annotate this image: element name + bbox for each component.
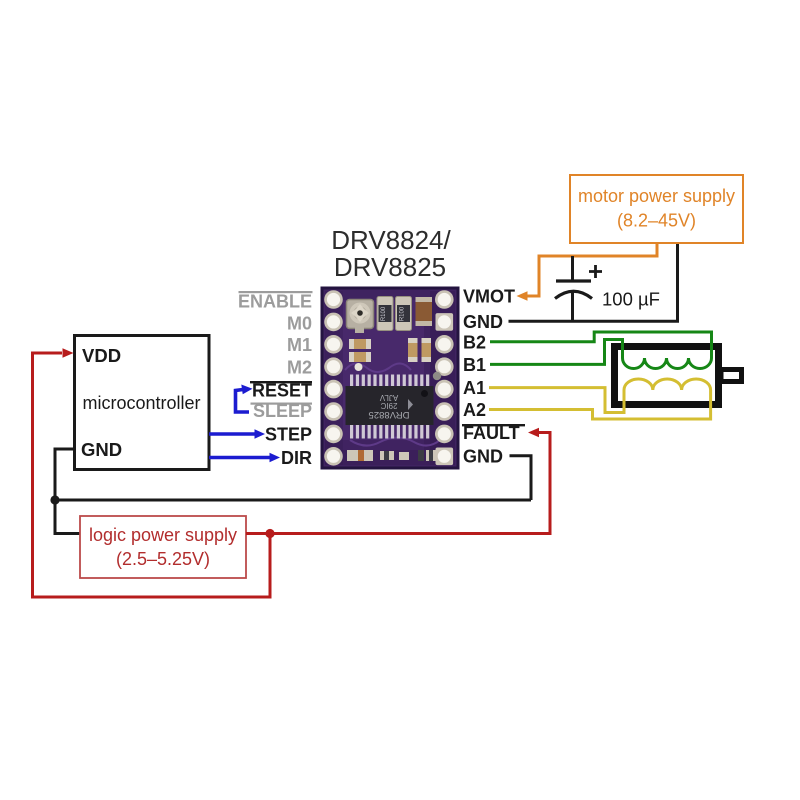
microcontroller block [75, 336, 210, 470]
arrow into STEP [255, 429, 266, 439]
logic power supply box [80, 516, 246, 578]
svg-text:logic power supply: logic power supply [89, 525, 237, 545]
wire GND: microcontroller to junction and logic supply [55, 449, 80, 534]
left pad column [324, 290, 343, 465]
coil A (yellow, bumps up) [624, 379, 711, 390]
svg-text:ENABLE: ENABLE [238, 292, 312, 312]
wire DIR (blue) [209, 456, 270, 459]
small SMD component right a [408, 338, 418, 362]
wire VDD supply loop (red) [33, 353, 271, 597]
arrow into FAULT [528, 428, 539, 438]
capacitor C1 100uF [555, 256, 660, 321]
svg-text:GND: GND [463, 312, 503, 332]
wire GND bus (horizontal) [55, 499, 531, 502]
svg-text:DRV8825: DRV8825 [334, 252, 446, 282]
arrow into DIR [270, 453, 281, 463]
title DRV8824/DRV8825 [331, 225, 451, 282]
svg-text:A2: A2 [463, 400, 486, 420]
wire RESET-SLEEP bracket (blue) [236, 390, 250, 413]
arrow into RESET [241, 385, 252, 395]
negative curved plate [555, 291, 592, 298]
negative lead [571, 292, 574, 321]
motor power supply box [570, 175, 743, 243]
svg-text:B1: B1 [463, 355, 486, 375]
svg-text:GND: GND [81, 439, 122, 460]
svg-text:VMOT: VMOT [463, 287, 515, 307]
svg-text:R100: R100 [400, 306, 406, 321]
coil B (green, bumps down) [623, 358, 712, 369]
svg-text:DIR: DIR [281, 448, 312, 468]
right side pin labels [462, 287, 525, 467]
svg-text:M1: M1 [287, 335, 312, 355]
stepper motor body [615, 347, 742, 405]
positive plate [556, 279, 591, 282]
SMD component (sense resistor 1) [377, 297, 393, 331]
wire A1 (yellow) under bottom wall to coil left end [489, 388, 624, 413]
wire GND: board bottom GND to bus [510, 456, 532, 500]
svg-text:STEP: STEP [265, 425, 312, 445]
svg-text:100 µF: 100 µF [602, 289, 660, 310]
arrow into VDD [63, 348, 74, 358]
svg-text:(8.2–45V): (8.2–45V) [617, 211, 696, 231]
pin label ENABLE (with overline) [238, 291, 313, 421]
SMD component (sense resistor 2) [396, 297, 412, 331]
SMD capacitor (brown) [416, 297, 433, 326]
motor shaft [721, 370, 742, 382]
small SMD resistor left b [349, 352, 371, 362]
svg-text:GND: GND [463, 447, 503, 467]
wire VMOT (orange) from motor supply [526, 243, 657, 296]
small SMD component right b [422, 338, 432, 362]
wire STEP (blue) [209, 432, 255, 435]
via (gray dot) [433, 372, 441, 380]
svg-text:VDD: VDD [82, 345, 121, 366]
wire GND: board top GND to motor supply [509, 243, 678, 321]
positive lead [571, 256, 574, 281]
IC pins bottom row [350, 425, 429, 439]
svg-text:A1: A1 [463, 378, 486, 398]
svg-text:M2: M2 [287, 358, 312, 378]
svg-text:M0: M0 [287, 314, 312, 334]
junction VDD net [265, 529, 274, 538]
svg-text:RESET: RESET [252, 381, 312, 401]
svg-text:microcontroller: microcontroller [82, 393, 200, 413]
right pad column [435, 290, 454, 465]
junction GND node [50, 495, 59, 504]
driver board U1 (DRV8825 carrier PCB photo) [322, 288, 458, 468]
arrow into VMOT [517, 291, 528, 301]
svg-text:motor power supply: motor power supply [578, 186, 735, 206]
IC pins top row [350, 375, 429, 388]
svg-text:B2: B2 [463, 333, 486, 353]
wire B2 (green) over motor top to coil right end [490, 332, 712, 358]
wire FAULT (red) [246, 433, 550, 534]
svg-text:(2.5–5.25V): (2.5–5.25V) [116, 549, 210, 569]
via (white dot) [355, 363, 363, 371]
IC DRV8825 chip body [346, 386, 434, 425]
wire B1 (green) hop over left wall to coil left end [490, 340, 623, 365]
trimmer potentiometer [347, 300, 374, 334]
svg-text:R100: R100 [381, 306, 387, 321]
svg-text:AJLV: AJLV [379, 393, 398, 402]
svg-text:DRV8824/: DRV8824/ [331, 225, 451, 255]
wire A2 (yellow) under motor to coil right end [489, 390, 711, 419]
plus sign [589, 265, 602, 278]
small SMD resistor left a [349, 339, 371, 349]
bottom edge small components [347, 450, 436, 461]
